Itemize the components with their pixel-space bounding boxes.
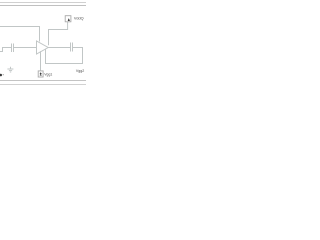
svg-text:Vgg2: Vgg2 — [76, 69, 84, 73]
svg-text:VddQ: VddQ — [74, 17, 84, 21]
svg-text:Vgg1: Vgg1 — [44, 72, 52, 76]
